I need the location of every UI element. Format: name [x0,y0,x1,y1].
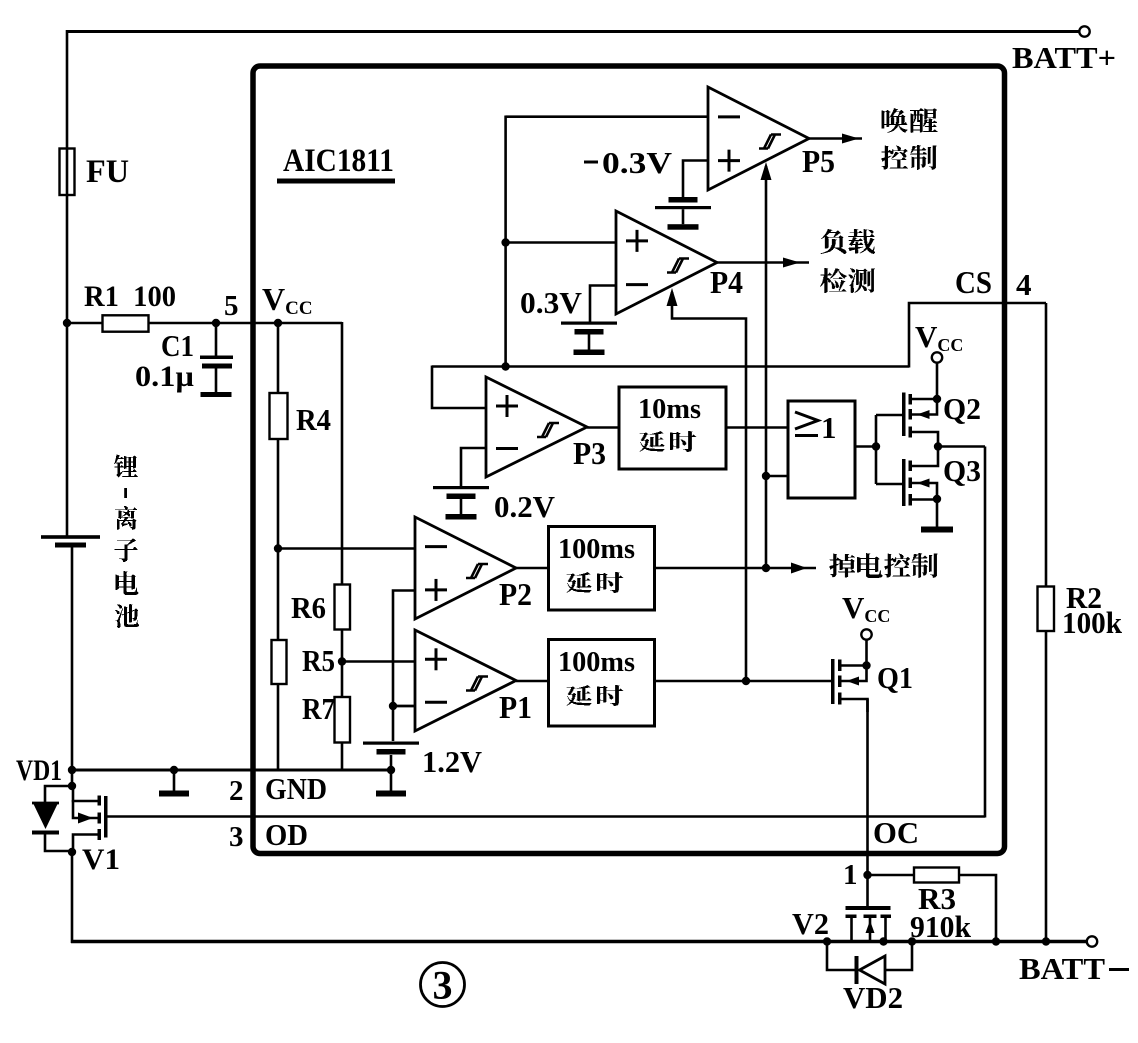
svg-text:4: 4 [1016,267,1032,302]
node Q2Q3 gate junction [872,442,880,450]
wire left battery wire lower [71,547,74,788]
svg-text:CS: CS [955,264,992,300]
wire 100ms P2 output [655,567,817,570]
op-amp P2 [415,517,516,619]
svg-text:10ms: 10ms [638,393,701,425]
node Q3 source junction [933,495,941,503]
node 1.2V GND junction [387,766,395,774]
wire GND rail pin2 [71,769,392,772]
label AIC1811 [277,143,395,184]
wire R3 right leg [959,875,996,942]
svg-text:Q1: Q1 [877,660,913,695]
node Q1 drain junction [862,661,870,669]
svg-text:FU: FU [86,154,129,190]
svg-text:V2: V2 [792,906,829,941]
label 检测 [820,268,847,293]
svg-text:R6: R6 [291,590,326,625]
label 控制 wake [882,146,908,170]
ground symbol Q3 [921,527,953,533]
wire OD gate wire outside [106,815,253,818]
wire BATT+ top rail [66,30,1080,33]
svg-text:P1: P1 [499,689,532,725]
label 负载 [821,229,847,254]
diode VD2 [827,942,912,985]
wire R3 left [868,874,915,877]
node VD1 top junction [68,782,76,790]
svg-text:V1: V1 [82,843,120,876]
node GND-left junction [68,766,76,774]
node Q1 gate junction [742,677,750,685]
arrow P5 strobe [761,162,772,180]
wire P3 output [587,426,619,429]
svg-text:0.1µ: 0.1µ [135,360,194,393]
wire 100ms P1 output [655,680,832,683]
node Q2 source junction [933,395,941,403]
svg-text:1: 1 [843,859,858,891]
label 延时 10ms [640,431,665,452]
label battery 锂-离子电池 [114,455,139,629]
svg-text:R5: R5 [302,643,335,678]
battery 0.2V [433,486,489,489]
wire R7 branch [341,629,344,770]
node CS-P5 junction [501,362,509,370]
transistor Q3 [902,446,938,506]
op-amp P1 [415,630,516,731]
wire Q2 Q3 gates [876,415,903,484]
terminal VCC Q1 [861,629,871,639]
figure number 3 [421,963,465,1008]
battery 1.2V [363,742,419,745]
wire P5 plus to -0.3V [683,161,708,198]
label 唤醒 [882,108,908,133]
svg-text:AIC1811: AIC1811 [283,143,394,179]
svg-text:C1: C1 [161,328,194,363]
resistor R2 [1038,587,1055,632]
wire Q2Q3 output to OD [938,445,985,448]
wire Q1 VCC stub [865,640,868,666]
wire 10ms output [726,426,788,429]
delay box 100ms P1 [549,640,655,727]
svg-text:R1 100: R1 100 [84,280,176,313]
op-amp P3 [486,377,587,477]
wire P1 output [516,680,549,683]
wire left wire to bottom rail [71,851,74,943]
label >=1 [795,410,837,445]
battery 0.3V [561,322,617,325]
svg-text:VD2: VD2 [843,980,903,1015]
svg-text:Q3: Q3 [943,453,981,488]
svg-text:100k: 100k [1062,605,1123,640]
node P4 plus junction [501,238,509,246]
node Q2-Q3 junction [934,442,942,450]
node R4 top junction [274,319,282,327]
svg-text:100ms: 100ms [558,534,635,565]
node P2 minus junction [278,547,415,550]
svg-text:5: 5 [224,290,239,322]
op-amp P4 [616,211,717,314]
label 掉电控制 [830,554,855,578]
label 延时 100ms P2 [567,572,592,593]
battery B1 plates [41,535,100,547]
svg-text:2: 2 [229,775,244,807]
transistor V1 [73,787,108,852]
wire P4 plus input [506,241,616,244]
wire left battery wire upper [66,30,69,536]
wire P5 strobe [765,166,768,568]
capacitor C1 [200,323,233,397]
arrow P5 output [842,134,859,144]
label -0.3V [584,145,673,180]
node V2 right junction [879,937,887,945]
delay box 10ms [619,387,726,469]
wire R6R7 to P1 plus [342,660,415,663]
op-amp P5 [708,87,809,190]
wire R2 branch [1045,303,1048,942]
svg-text:1: 1 [821,410,837,445]
label BATT- minus [1109,968,1129,971]
wire P3 minus to 0.2V [461,448,486,486]
wire OC lead [866,699,869,910]
svg-text:P2: P2 [499,576,532,612]
wire P5 output [809,137,862,140]
resistor R6 [335,585,351,630]
node C1 junction [212,319,220,327]
IC U1 AIC1811 box [253,66,1005,854]
node OR input junction [762,472,770,480]
wire VCC rail [66,322,342,586]
svg-text:Q2: Q2 [943,391,981,426]
ground symbol left [159,770,189,797]
transistor Q1 [831,659,868,712]
node R1 left junction [63,319,71,327]
svg-text:R7: R7 [302,691,335,726]
wire P4 minus to 0.3V [590,286,616,322]
wire bottom BATT- rail [71,940,1087,943]
wire OR output [855,445,877,448]
node V2 left junction [823,937,831,945]
node R3 rail junction [992,937,1000,945]
wire CS net [432,303,1046,408]
svg-text:0.3V: 0.3V [520,285,583,320]
svg-text:BATT: BATT [1019,951,1105,986]
svg-text:1.2V: 1.2V [422,744,483,779]
resistor R1 [103,315,149,331]
svg-text:P3: P3 [573,435,606,471]
svg-text:0.2V: 0.2V [494,489,556,524]
svg-text:VD1: VD1 [16,754,62,787]
wire P4 strobe [672,292,746,681]
node VD2 right junction [908,937,916,945]
svg-text:OD: OD [265,817,308,852]
resistor R5 [272,640,287,684]
svg-text:R4: R4 [296,402,331,437]
terminal BATT- [1087,936,1097,946]
node P2out junction [762,564,770,572]
svg-text:0.3V: 0.3V [602,145,673,180]
wire OD inside [253,447,985,818]
wire P4 output [717,261,809,264]
arrow 掉电控制 [791,563,807,574]
battery -0.3V [669,197,698,203]
terminal VCC Q2 [932,352,942,362]
terminal BATT+ [1079,26,1089,36]
svg-text:P5: P5 [802,143,835,179]
svg-text:BATT+: BATT+ [1012,40,1116,75]
svg-text:GND: GND [265,771,327,806]
resistor R4 [270,393,288,439]
ground symbol right [376,770,406,797]
svg-text:100ms: 100ms [558,647,635,678]
resistor R7 [335,697,351,743]
diode VD1 [32,786,72,851]
wire Q3 ground stub [936,499,939,527]
svg-text:OC: OC [873,815,919,850]
wire P5 minus input [506,116,708,367]
delay box 100ms P2 [549,527,655,611]
svg-text:3: 3 [229,821,244,853]
node P1 minus junction [389,702,397,710]
wire R4 branch [277,323,280,770]
node R2 rail junction [1042,937,1050,945]
arrow P4 output [783,258,800,268]
svg-text:910k: 910k [910,909,972,944]
wire Q2 VCC stub [936,362,939,399]
or-gate >=1 box [788,401,855,498]
wire 1.2V to GND rail [390,755,393,770]
transistor Q2 [902,393,938,448]
svg-text:3: 3 [433,963,453,1008]
transistor V2 [846,906,892,942]
svg-text:P4: P4 [710,264,743,300]
wire OR input 2 [766,475,788,478]
label 延时 100ms P1 [567,685,592,706]
fuse FU [60,149,75,196]
node R4-R5 junction [274,544,282,552]
node V1 source junction [68,848,76,856]
node GND ground junction [170,766,178,774]
node R6-R7 junction [338,657,346,665]
wire P2 plus / P1 minus to 1.2V [393,591,415,742]
resistor R3 [914,868,959,883]
arrow P4 strobe [667,288,678,306]
node pin1 junction [863,871,871,879]
wire P2 output [516,567,549,570]
